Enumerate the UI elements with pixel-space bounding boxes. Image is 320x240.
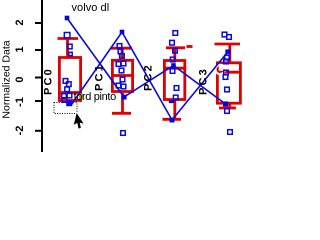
PC3 median xyxy=(217,71,241,74)
ford PC0 point xyxy=(66,100,72,106)
PC0 open squares xyxy=(64,33,70,38)
blue bar marker at PC2 box bottom xyxy=(169,100,174,103)
volvo PC1 point xyxy=(122,95,127,100)
volvo PC2 point xyxy=(171,63,176,68)
svg-text:PC2: PC2 xyxy=(143,63,155,91)
PC1 upper whisker xyxy=(121,49,124,61)
tick 1 xyxy=(35,49,41,51)
boxplot PC3 xyxy=(215,44,242,108)
svg-text:PC3: PC3 xyxy=(198,67,210,95)
PC1 median xyxy=(112,74,133,77)
filled squares ford xyxy=(66,30,230,123)
ford PC2 point xyxy=(170,118,175,123)
PC1 lower whisker cap xyxy=(112,112,131,115)
tick 0 xyxy=(35,77,41,79)
PC2 lower whisker xyxy=(173,100,176,120)
svg-text:1: 1 xyxy=(14,46,26,52)
svg-text:Normalized Data: Normalized Data xyxy=(1,40,13,118)
PC2 cap side dash xyxy=(187,45,193,48)
volvo PC0 point xyxy=(65,16,70,21)
polyline volvo dl xyxy=(67,18,226,104)
rubber-band selection rect (white fill, dotted) xyxy=(54,103,77,114)
boxplot PC0 xyxy=(58,39,82,101)
svg-text:PC0: PC0 xyxy=(43,67,55,95)
PC3 top whisker cap xyxy=(215,43,241,46)
volvo PC3 point xyxy=(223,101,228,106)
PC2 open squares xyxy=(173,31,178,36)
svg-text:0: 0 xyxy=(14,76,26,82)
svg-text:volvo dl: volvo dl xyxy=(72,2,110,14)
ford PC1 point xyxy=(120,30,125,35)
svg-text:PC1: PC1 xyxy=(94,63,106,91)
PC2 lower whisker cap xyxy=(163,118,182,121)
PC0 box xyxy=(59,58,80,101)
open square data points xyxy=(62,31,233,136)
tick -2 xyxy=(35,130,41,132)
svg-text:-2: -2 xyxy=(14,126,26,136)
ford PC3 point xyxy=(225,50,230,54)
y-axis line xyxy=(41,0,43,152)
PC2 box xyxy=(164,61,184,100)
boxplot PC1 xyxy=(111,48,133,113)
boxplot PC2 xyxy=(163,47,193,120)
PC0 top whisker cap xyxy=(58,37,79,40)
PC2 median xyxy=(164,67,185,70)
mouse cursor arrow xyxy=(73,113,85,129)
xor artifact under 'o' of ford xyxy=(79,94,83,99)
filled squares volvo xyxy=(65,16,229,107)
PC1 top whisker cap xyxy=(111,47,132,50)
white dashed identify circle on PC3 box corner xyxy=(215,65,224,74)
tick -1 xyxy=(35,100,41,102)
PC0 median xyxy=(59,91,81,94)
PC3 open squares xyxy=(222,32,227,37)
PC3 lower whisker cap xyxy=(219,107,236,110)
PC3 upper whisker xyxy=(228,45,231,63)
polyline ford pinto xyxy=(72,32,228,120)
PC3 box xyxy=(217,63,240,103)
PC1 open squares xyxy=(117,44,122,49)
svg-text:2: 2 xyxy=(14,19,26,25)
tick 2 xyxy=(35,22,41,24)
PC2 top whisker cap xyxy=(166,46,185,49)
PC1 lower whisker xyxy=(121,92,124,114)
svg-text:ford pinto: ford pinto xyxy=(74,91,117,103)
PC3 lower whisker xyxy=(228,104,231,108)
PC1 box xyxy=(112,60,132,91)
PC2 upper whisker xyxy=(173,49,176,61)
PC0 upper whisker xyxy=(66,39,69,57)
svg-text:-1: -1 xyxy=(14,97,26,107)
